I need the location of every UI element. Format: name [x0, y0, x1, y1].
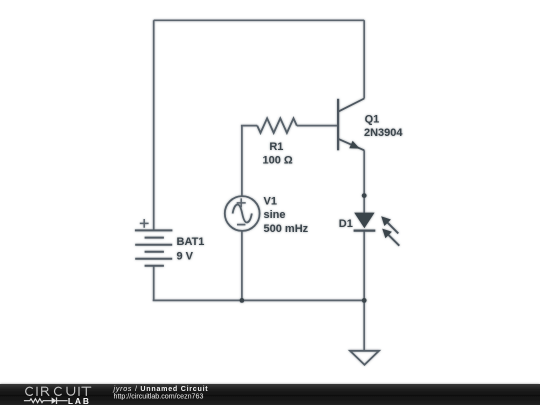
node V1-bottom junction	[240, 298, 245, 303]
svg-text:2N3904: 2N3904	[364, 127, 403, 139]
D1 light arrow 2	[382, 229, 399, 246]
svg-text:http://circuitlab.com/cezn763: http://circuitlab.com/cezn763	[114, 393, 204, 401]
svg-text:D1: D1	[339, 218, 353, 230]
battery BAT1	[135, 230, 173, 265]
Q1 emitter arrowhead	[349, 141, 360, 149]
svg-text:BAT1: BAT1	[177, 236, 205, 248]
svg-text:R1: R1	[269, 141, 283, 153]
svg-text:sine: sine	[264, 209, 286, 221]
resistor R1	[257, 118, 297, 133]
node LED-bottom junction	[362, 298, 367, 303]
logo resistor-diode glyph	[24, 397, 68, 404]
wire battery bottom	[153, 266, 155, 301]
battery plus sign	[140, 219, 149, 228]
wire V1 to R1	[241, 125, 257, 127]
svg-text:9 V: 9 V	[177, 251, 194, 263]
wire bottom rail to ground	[363, 300, 365, 350]
wire R1 to base	[297, 125, 338, 127]
footer bar	[0, 384, 540, 405]
node emitter-LED junction	[362, 193, 367, 198]
V1 minus sign	[237, 224, 245, 226]
svg-text:100 Ω: 100 Ω	[262, 154, 292, 166]
svg-text:500 mHz: 500 mHz	[264, 223, 309, 235]
D1 cathode bar	[354, 230, 376, 232]
wire top (battery+ to collector)	[154, 19, 365, 21]
svg-text:V1: V1	[264, 196, 277, 208]
svg-text:LAB: LAB	[68, 396, 89, 405]
wire LED to bottom rail	[363, 231, 365, 301]
logo CIRCUIT lettering	[26, 387, 91, 395]
wire V1 bottom	[241, 231, 243, 301]
V1 plus sign	[237, 198, 246, 207]
wire collector drop	[363, 20, 365, 98]
wire emitter to LED	[363, 150, 365, 213]
wire left (top to battery)	[153, 20, 155, 230]
wire bottom rail	[153, 299, 365, 301]
D1 light arrow 1	[381, 216, 398, 233]
LED D1	[354, 213, 374, 229]
svg-text:Q1: Q1	[365, 113, 380, 125]
source V1	[225, 196, 260, 231]
ground	[350, 351, 379, 365]
transistor Q1	[338, 99, 364, 151]
wire V1 top	[241, 126, 243, 197]
